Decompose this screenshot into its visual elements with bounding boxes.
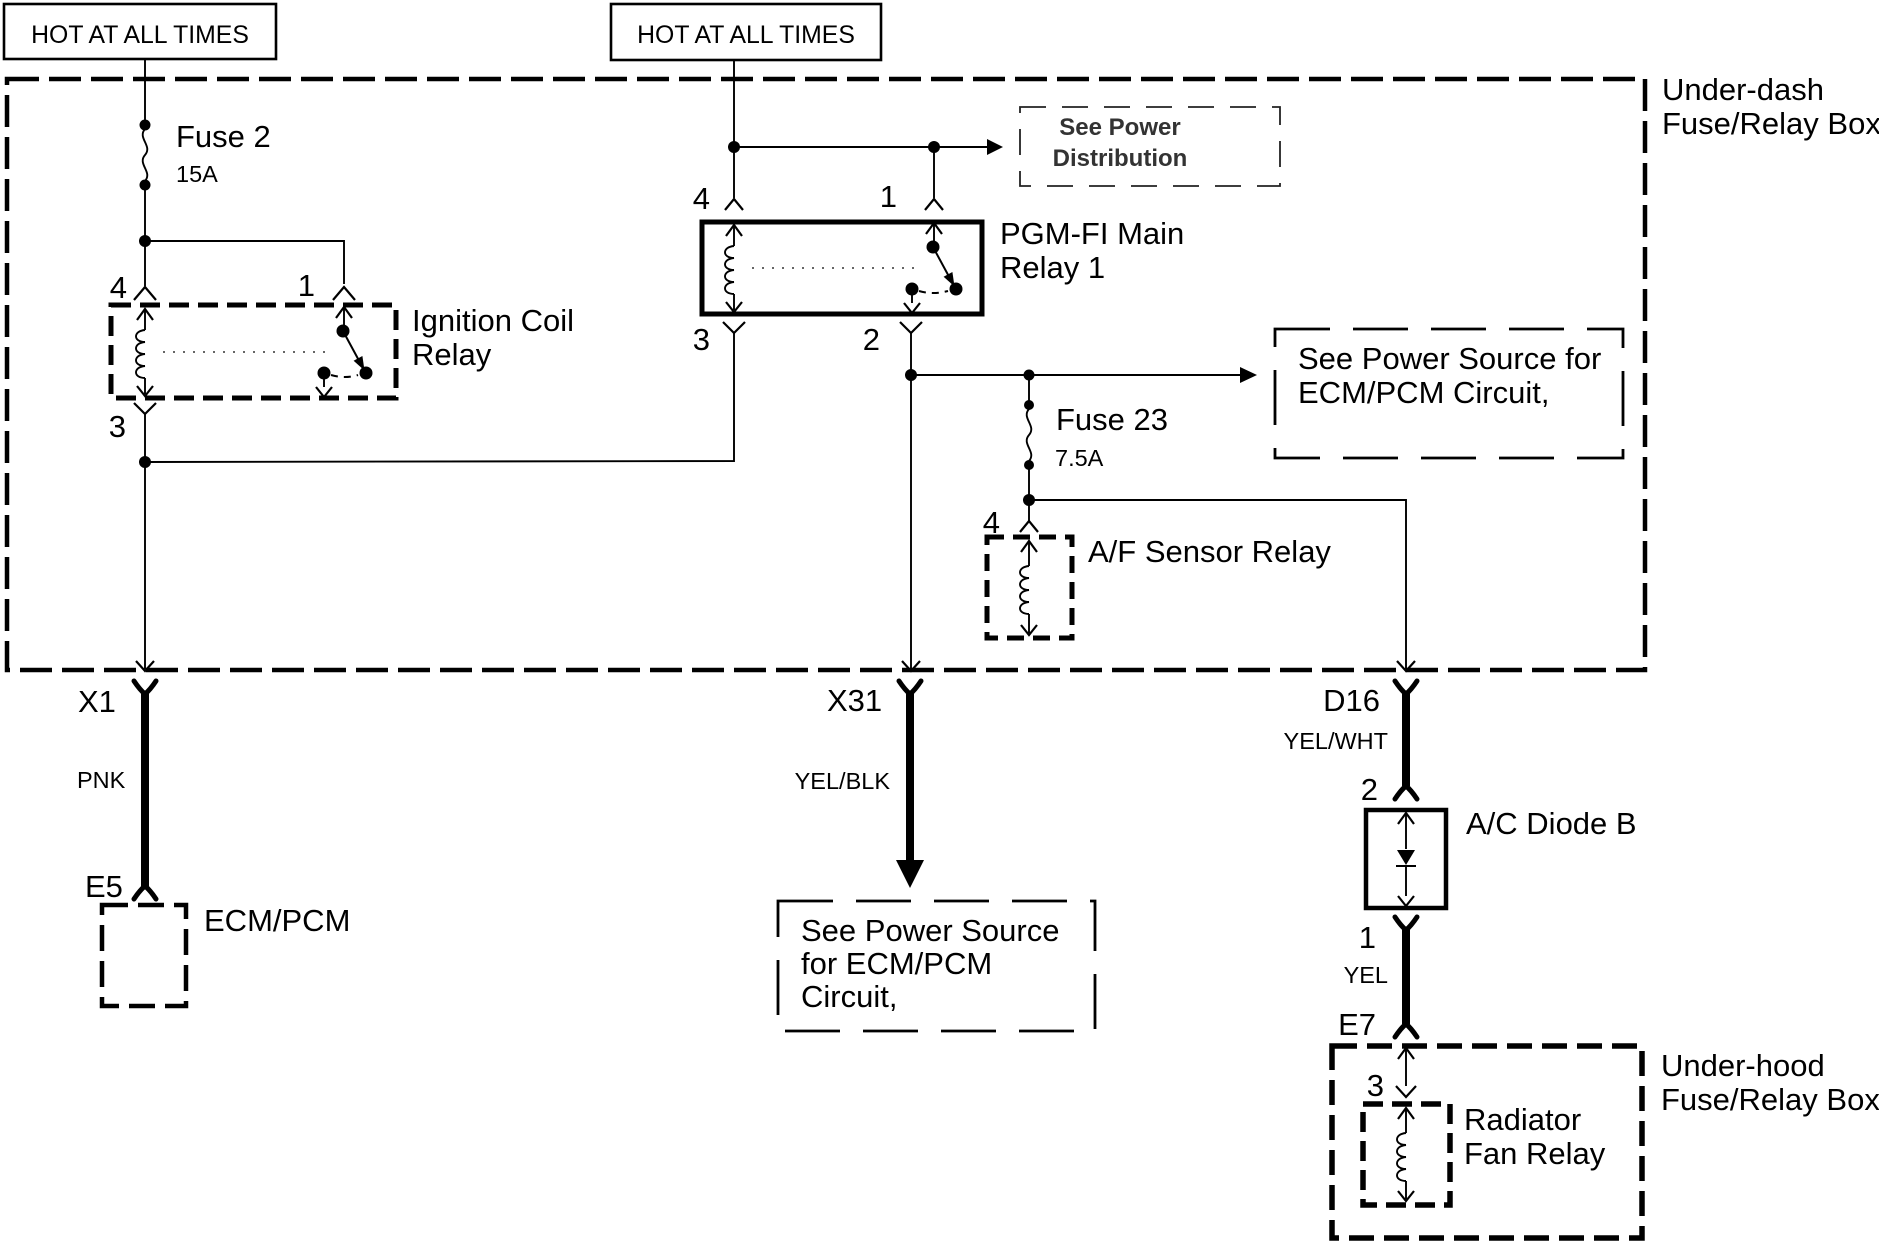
svg-text:PNK: PNK: [77, 767, 126, 793]
fuse F2 (Fuse 2, 15A): [140, 120, 151, 191]
ignition relay coil: [136, 309, 153, 396]
svg-text:3: 3: [109, 409, 126, 444]
wire bus to PGM-FI relay pin 3: [145, 340, 734, 462]
svg-text:Fuse 23: Fuse 23: [1056, 402, 1168, 437]
svg-text:3: 3: [1367, 1068, 1384, 1103]
svg-text:2: 2: [1361, 772, 1378, 807]
wire down to PGM-FI pin 4: [733, 147, 735, 198]
wire pin2 bus across to ECM/PCM power source arrow: [911, 374, 1240, 376]
node junction ignition pin3 / PGM-FI pin3 bus: [139, 456, 151, 468]
svg-text:E5: E5: [85, 869, 123, 904]
label Radiator Fan Relay: [1464, 1102, 1606, 1171]
node junction to power distribution tap: [728, 141, 740, 153]
Under-dash Fuse/Relay Box (dashed enclosure): [7, 79, 1645, 670]
wire from left HOT feed down to Fuse 2: [144, 59, 146, 124]
connector X31 terminal with arrow to power source note: [896, 681, 924, 888]
svg-text:See Power: See Power: [1059, 114, 1180, 141]
svg-text:1: 1: [1359, 920, 1376, 955]
svg-text:1: 1: [880, 179, 897, 214]
svg-text:HOT AT ALL TIMES: HOT AT ALL TIMES: [637, 22, 855, 49]
connector X1 terminal: [134, 681, 156, 899]
svg-text:3: 3: [693, 322, 710, 357]
svg-text:Fuse/Relay Box: Fuse/Relay Box: [1661, 1082, 1879, 1117]
label Under-hood Fuse/Relay Box: [1661, 1048, 1879, 1117]
label Under-dash Fuse/Relay Box: [1662, 72, 1879, 141]
connector E7 terminal: [1395, 917, 1417, 1037]
svg-text:ECM/PCM: ECM/PCM: [204, 903, 350, 938]
relay K2 PGM-FI Main Relay 1 (solid box): [702, 222, 982, 314]
svg-text:YEL/BLK: YEL/BLK: [795, 768, 891, 794]
svg-text:4: 4: [693, 181, 710, 216]
node junction fuse23 output: [1023, 494, 1035, 506]
svg-text:See Power Source for: See Power Source for: [1298, 341, 1601, 376]
arrow to See Power Source for ECM/PCM: [1240, 367, 1257, 383]
svg-text:Distribution: Distribution: [1053, 145, 1188, 172]
pin 3 fork below PGM-FI: [723, 322, 745, 340]
PGM-FI coil-contact dotted link: [752, 267, 915, 269]
node junction on pin2 bus for Fuse 23: [1024, 370, 1035, 381]
ignition relay coil-contact dotted link: [163, 351, 325, 353]
wire down to fuse 23: [1028, 375, 1030, 402]
fuse F23 (Fuse 23, 7.5A): [1024, 400, 1034, 470]
wire from right HOT feed down: [733, 60, 735, 147]
svg-text:YEL/WHT: YEL/WHT: [1284, 728, 1388, 754]
svg-text:A/C Diode B: A/C Diode B: [1466, 806, 1637, 841]
wire across to D16 drop: [1029, 500, 1406, 669]
svg-text:for ECM/PCM: for ECM/PCM: [801, 946, 992, 981]
svg-text:7.5A: 7.5A: [1055, 445, 1104, 471]
svg-text:2: 2: [863, 322, 880, 357]
relay K3 A/F Sensor Relay (dashed box): [987, 537, 1072, 638]
wire down to A/F sensor relay pin 4: [1028, 500, 1030, 521]
svg-text:See Power Source: See Power Source: [801, 913, 1059, 948]
relay K1 Ignition Coil Relay (dashed box): [111, 305, 396, 398]
X31 pin arrowhead at box edge: [902, 661, 920, 671]
svg-text:X1: X1: [78, 684, 116, 719]
svg-text:4: 4: [110, 270, 127, 305]
power label box HOT AT ALL TIMES (left): [4, 4, 276, 59]
wire down to ignition relay pin 4: [144, 241, 146, 286]
ECM/PCM (dashed box): [102, 905, 186, 1006]
wire X1 drop: [144, 462, 146, 669]
svg-text:PGM-FI Main: PGM-FI Main: [1000, 216, 1184, 251]
svg-text:Fan Relay: Fan Relay: [1464, 1136, 1606, 1171]
radiator fan relay coil: [1397, 1108, 1414, 1201]
power label box HOT AT ALL TIMES (right): [611, 4, 881, 60]
pin 3 fork terminal below ignition relay: [134, 403, 156, 462]
reference box See Power Distribution: [1020, 107, 1280, 186]
node junction at fuse2 output: [139, 235, 151, 247]
svg-text:Radiator: Radiator: [1464, 1102, 1581, 1137]
connector D16 terminal: [1395, 681, 1417, 799]
pin 2 fork below PGM-FI: [900, 322, 922, 375]
reference box See Power Source for ECM/PCM Circuit (bottom): [778, 901, 1095, 1031]
svg-text:A/F Sensor Relay: A/F Sensor Relay: [1088, 534, 1331, 569]
svg-text:Circuit,: Circuit,: [801, 979, 897, 1014]
relay K4 Radiator Fan Relay (dashed box): [1363, 1104, 1450, 1205]
A/C diode symbol: [1396, 813, 1416, 906]
svg-text:Relay 1: Relay 1: [1000, 250, 1105, 285]
svg-text:D16: D16: [1323, 683, 1380, 718]
wire fuse2 to junction: [144, 189, 146, 241]
wire down to PGM-FI pin 1: [933, 147, 935, 198]
svg-text:Ignition Coil: Ignition Coil: [412, 303, 574, 338]
svg-text:Fuse 2: Fuse 2: [176, 119, 271, 154]
svg-text:Fuse/Relay Box: Fuse/Relay Box: [1662, 106, 1879, 141]
node junction on pin 1 drop: [928, 141, 940, 153]
value label Fuse 2 / 15A: [176, 119, 271, 187]
svg-text:YEL: YEL: [1344, 962, 1388, 988]
arrow to See Power Distribution: [987, 139, 1003, 155]
node junction pin2 bus: [905, 369, 917, 381]
svg-text:Under-dash: Under-dash: [1662, 72, 1824, 107]
svg-text:ECM/PCM Circuit,: ECM/PCM Circuit,: [1298, 375, 1549, 410]
pin 4 fork terminal: [134, 287, 156, 300]
X1 pin arrowhead at box edge: [136, 661, 154, 671]
pin 4 fork (A/F sensor relay): [1020, 521, 1038, 532]
label Ignition Coil Relay: [412, 303, 574, 372]
svg-text:1: 1: [298, 268, 315, 303]
wire tap across: [734, 146, 987, 148]
Under-hood Fuse/Relay Box (dashed enclosure): [1332, 1046, 1642, 1238]
diode D-B A/C Diode B (solid box): [1366, 810, 1446, 908]
wire fuse23 to junction: [1028, 469, 1030, 500]
pin 3 entry into under-hood box: [1396, 1048, 1416, 1097]
label PGM-FI Main Relay 1: [1000, 216, 1184, 285]
svg-text:HOT AT ALL TIMES: HOT AT ALL TIMES: [31, 22, 249, 49]
wire branch to ignition relay pin 1: [145, 241, 344, 284]
D16 pin arrowhead at box edge: [1397, 661, 1415, 671]
wire X31 drop: [910, 375, 912, 669]
value label Fuse 23 / 7.5A: [1055, 402, 1168, 471]
A/F sensor relay coil: [1020, 541, 1037, 635]
svg-text:E7: E7: [1338, 1007, 1376, 1042]
PGM-FI relay switch contacts: [904, 223, 963, 313]
pin 1 fork terminal: [333, 287, 355, 300]
svg-text:Under-hood: Under-hood: [1661, 1048, 1825, 1083]
svg-text:15A: 15A: [176, 161, 218, 187]
svg-text:X31: X31: [827, 683, 882, 718]
PGM-FI relay coil: [725, 225, 742, 312]
svg-text:Relay: Relay: [412, 337, 492, 372]
reference box See Power Source for ECM/PCM Circuit (right): [1275, 329, 1623, 458]
pin 1 fork (PGM-FI): [925, 199, 943, 210]
pin 4 fork (PGM-FI): [725, 199, 743, 210]
ignition relay switch contacts: [316, 307, 373, 397]
